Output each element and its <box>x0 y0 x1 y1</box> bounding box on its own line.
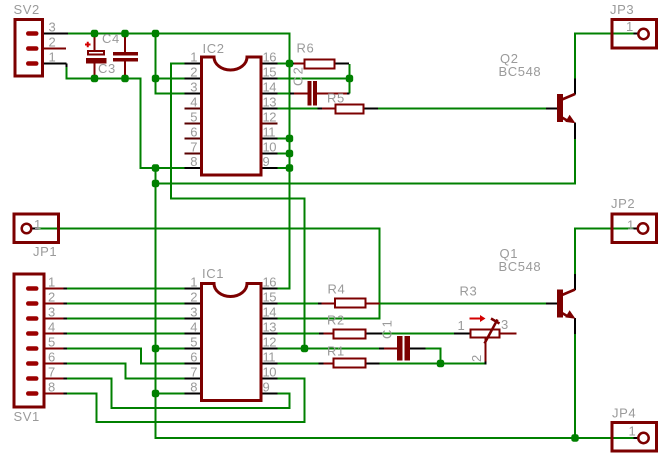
svg-text:9: 9 <box>263 380 270 395</box>
svg-text:11: 11 <box>263 350 276 365</box>
svg-text:3: 3 <box>48 305 55 320</box>
svg-text:2: 2 <box>48 290 55 305</box>
svg-text:16: 16 <box>263 50 277 65</box>
svg-text:SV2: SV2 <box>14 2 40 17</box>
svg-text:JP2: JP2 <box>611 196 635 211</box>
svg-text:10: 10 <box>263 365 277 380</box>
svg-text:BC548: BC548 <box>499 64 542 79</box>
svg-text:2: 2 <box>49 35 56 50</box>
svg-text:BC548: BC548 <box>499 259 542 274</box>
svg-text:12: 12 <box>263 110 277 125</box>
svg-text:SV1: SV1 <box>14 409 40 424</box>
svg-text:5: 5 <box>190 335 197 350</box>
svg-text:3: 3 <box>501 317 508 332</box>
svg-text:7: 7 <box>190 365 197 380</box>
svg-text:1: 1 <box>626 19 633 34</box>
svg-text:R5: R5 <box>327 91 345 106</box>
svg-text:JP1: JP1 <box>33 244 57 259</box>
svg-text:7: 7 <box>48 365 55 380</box>
svg-text:13: 13 <box>263 95 277 110</box>
svg-text:6: 6 <box>190 125 197 140</box>
svg-text:R3: R3 <box>460 284 478 299</box>
svg-text:8: 8 <box>190 380 197 395</box>
svg-text:4: 4 <box>190 320 197 335</box>
svg-text:4: 4 <box>190 95 197 110</box>
svg-text:C3: C3 <box>98 61 116 76</box>
svg-text:R4: R4 <box>328 282 346 297</box>
svg-text:1: 1 <box>627 218 634 233</box>
svg-text:R1: R1 <box>327 344 345 359</box>
svg-text:R6: R6 <box>297 41 315 56</box>
svg-text:9: 9 <box>263 154 270 169</box>
svg-text:1: 1 <box>49 50 56 65</box>
svg-text:6: 6 <box>48 350 55 365</box>
svg-text:IC1: IC1 <box>202 266 224 281</box>
svg-text:1: 1 <box>629 424 636 439</box>
svg-text:3: 3 <box>49 20 56 35</box>
svg-text:2: 2 <box>190 65 197 80</box>
svg-text:8: 8 <box>190 154 197 169</box>
svg-text:2: 2 <box>190 290 197 305</box>
svg-text:2: 2 <box>469 354 484 362</box>
svg-text:5: 5 <box>190 110 197 125</box>
svg-text:12: 12 <box>263 335 277 350</box>
svg-text:C4: C4 <box>102 31 120 46</box>
svg-text:10: 10 <box>263 140 277 155</box>
svg-text:JP4: JP4 <box>612 406 636 421</box>
svg-text:4: 4 <box>48 320 55 335</box>
svg-text:1: 1 <box>48 275 55 290</box>
svg-text:C1: C1 <box>380 318 395 339</box>
svg-text:8: 8 <box>48 380 55 395</box>
svg-text:C2: C2 <box>291 65 306 86</box>
svg-text:1: 1 <box>34 217 41 232</box>
svg-text:15: 15 <box>263 65 277 80</box>
svg-text:15: 15 <box>263 290 277 305</box>
svg-text:1: 1 <box>458 318 465 333</box>
svg-text:16: 16 <box>263 275 277 290</box>
svg-text:R2: R2 <box>327 313 345 328</box>
svg-text:14: 14 <box>263 80 277 95</box>
svg-text:3: 3 <box>190 80 197 95</box>
svg-text:3: 3 <box>190 305 197 320</box>
svg-text:13: 13 <box>263 320 277 335</box>
svg-text:5: 5 <box>48 335 55 350</box>
svg-text:JP3: JP3 <box>610 2 634 17</box>
svg-text:11: 11 <box>263 125 276 140</box>
svg-text:1: 1 <box>190 275 197 290</box>
svg-text:7: 7 <box>190 140 197 155</box>
svg-text:1: 1 <box>190 50 197 65</box>
svg-text:14: 14 <box>263 305 277 320</box>
svg-text:6: 6 <box>190 350 197 365</box>
svg-text:IC2: IC2 <box>203 41 225 56</box>
